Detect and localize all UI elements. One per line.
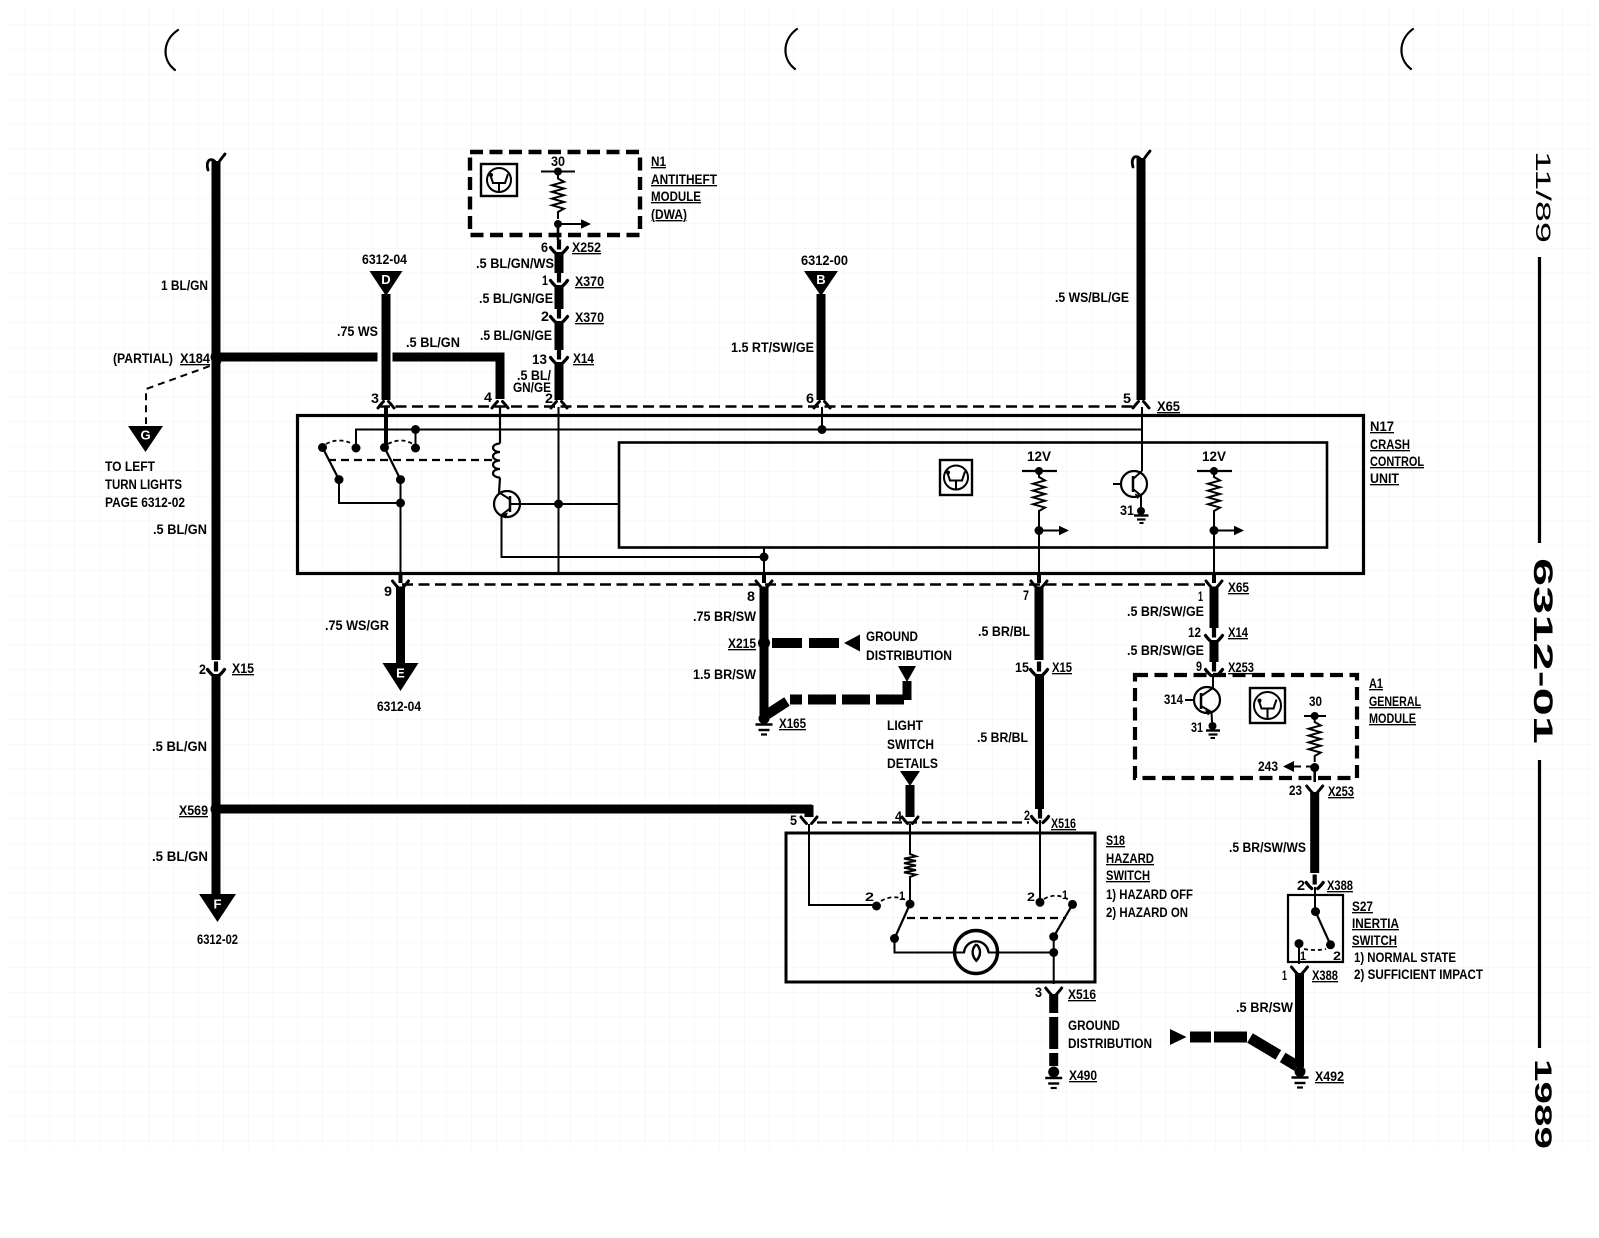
svg-text:HAZARD: HAZARD [1106,851,1154,866]
wire .5 WS/BL/GE feed [1132,151,1150,167]
node pin8 stub [760,553,769,562]
pin 7 of N17 [1037,575,1041,583]
transistor Q1 [499,478,500,494]
svg-text:X516: X516 [1068,987,1096,1002]
wire .5 BR/SW/GE lower [1210,640,1219,662]
lamp in S18 [955,931,998,974]
wire .5 BL/GN/WS [555,252,564,273]
pin 1 of N17 [1212,575,1216,583]
A1 module box [1135,675,1357,778]
svg-text:243: 243 [1258,759,1278,774]
arrow output N1 [560,223,584,225]
wire lamp to switch2 [988,952,1054,954]
S18 switch 1 [872,902,881,911]
svg-text:2: 2 [199,662,206,677]
svg-text:S27: S27 [1352,899,1373,914]
light switch details arrow [900,771,920,786]
module icon N1 [481,164,517,196]
connector X253 pin 9 [1206,670,1223,676]
svg-text:DISTRIBUTION: DISTRIBUTION [1068,1036,1152,1051]
svg-text:2) SUFFICIENT IMPACT: 2) SUFFICIENT IMPACT [1354,967,1484,982]
svg-text:.5 BL/GN/GE: .5 BL/GN/GE [479,291,553,306]
arrow resistor2 [1216,530,1237,532]
svg-text:2) HAZARD ON: 2) HAZARD ON [1106,905,1188,920]
wire switch2 to pin 3 [1053,953,1055,985]
svg-text:DISTRIBUTION: DISTRIBUTION [866,648,952,663]
module icon N17 [940,460,972,495]
resistor in S18 [904,848,916,883]
ground distribution wire to X492 [1170,1029,1187,1045]
connector X15 pin 2 [208,670,225,676]
svg-text:MODULE: MODULE [1369,711,1416,726]
wire .5 BR/BL upper [1035,587,1044,661]
svg-text:G: G [140,428,150,443]
svg-text:9: 9 [1196,659,1202,674]
svg-text:6312-00: 6312-00 [801,253,848,268]
svg-text:2: 2 [865,890,874,904]
svg-text:N1: N1 [651,154,666,169]
wire pin5 into S18 [809,824,875,905]
connector X14 pin 13 [551,358,568,364]
connector X516 pin 3 [1046,988,1062,995]
ground internal Q3 [1209,722,1217,730]
svg-text:.75 BR/SW: .75 BR/SW [693,609,756,624]
svg-text:1.5 BR/SW: 1.5 BR/SW [693,667,756,682]
svg-text:.5 BR/BL: .5 BR/BL [977,730,1028,745]
resistor in A1 [1309,716,1321,762]
svg-text:314: 314 [1164,692,1183,707]
svg-text:X370: X370 [575,274,604,289]
svg-text:1989: 1989 [1529,1059,1556,1149]
svg-text:.75 WS/GR: .75 WS/GR [325,618,389,633]
svg-text:UNIT: UNIT [1370,471,1400,486]
svg-text:DETAILS: DETAILS [887,756,938,771]
svg-text:X253: X253 [1228,660,1254,675]
svg-text:2: 2 [1024,808,1030,823]
module icon A1 [1250,688,1285,723]
svg-text:1: 1 [542,273,548,288]
wire .5 BR/BL lower [1035,674,1044,809]
wire N1 to X252 [557,224,560,240]
svg-text:.5 BL/GN: .5 BL/GN [152,849,208,864]
ground distribution wire X490 [1049,994,1058,1013]
svg-text:X14: X14 [1228,625,1248,640]
svg-text:1: 1 [1300,949,1306,963]
svg-text:(DWA): (DWA) [651,207,687,222]
ground distribution arrow lower [898,666,916,682]
node 243 [1310,763,1319,772]
N17 inner box [619,443,1327,548]
wire Q1 emitter to pin8 node [502,515,765,557]
relay switch 1 [318,443,327,452]
svg-text:X65: X65 [1157,399,1180,414]
resistor 12V-1 [1033,471,1045,517]
wire Q1 base to node [520,503,559,505]
svg-text:TURN LIGHTS: TURN LIGHTS [105,477,182,492]
wire 1.5 BR/SW [760,643,769,715]
connector X14 pin 12 [1206,636,1223,642]
svg-text:4: 4 [484,390,493,405]
svg-text:2: 2 [1027,890,1035,904]
margin rule lower [1538,760,1541,1048]
svg-text:SWITCH: SWITCH [887,737,934,752]
svg-text:X569: X569 [179,803,208,818]
pin 6 of N17 [814,402,830,409]
connector X253 pin 23 [1307,786,1323,793]
junction stub to switch 2 contact [411,425,420,434]
connector X516 pin 2 [1032,817,1049,823]
wire pin4 to coil [499,407,501,444]
connector X388 pin 1 [1292,967,1308,974]
antitheft module N1 box [470,152,640,235]
svg-text:.5 BR/SW: .5 BR/SW [1236,1000,1293,1015]
svg-text:X65: X65 [1228,580,1249,595]
wire .75 WS/GR [396,587,405,666]
wire pin6 into box [821,407,823,430]
N17 top connector dashed row [379,405,1133,407]
svg-text:.5 BR/SW/GE: .5 BR/SW/GE [1127,643,1204,658]
svg-text:X215: X215 [728,636,756,651]
ground internal Q2 [1137,507,1145,515]
svg-text:30: 30 [551,154,565,169]
terminal 30 bar A1 [1304,715,1326,717]
wire pin3 to relay switch 2 pivot [384,407,388,445]
ground X490 [1048,1067,1059,1078]
wire pin2 vertical [558,407,560,574]
svg-text:6312-04: 6312-04 [362,252,407,267]
svg-text:.5 BR/SW/WS: .5 BR/SW/WS [1229,840,1306,855]
svg-text:B: B [816,272,825,287]
svg-text:ANTITHEFT: ANTITHEFT [651,172,718,187]
svg-text:D: D [381,272,390,287]
svg-text:.5 BL/GN: .5 BL/GN [406,335,460,350]
svg-text:TO LEFT: TO LEFT [105,459,156,474]
wire switch2 junction [1053,937,1055,953]
wire resistor1 to pin 7 [1038,531,1040,575]
svg-text:13: 13 [532,352,547,367]
wire junction to pin 9 [400,503,402,574]
N17 bottom connector dashed row [402,583,1205,585]
svg-text:(PARTIAL): (PARTIAL) [113,351,173,366]
svg-text:1: 1 [899,889,905,903]
transistor Q2 [1121,471,1147,497]
N17 outer box [298,416,1364,574]
svg-text:X15: X15 [1052,660,1072,675]
svg-text:.5 WS/BL/GE: .5 WS/BL/GE [1055,290,1129,305]
wire .5 BL/GN/GE lower [555,362,564,400]
connector X388 pin 2 [1306,883,1323,889]
svg-text:9: 9 [384,584,392,599]
wire switch2 to junction [400,480,402,503]
svg-text:12V: 12V [1202,449,1226,464]
wire .5 BR/SW [1295,973,1304,1067]
svg-text:6: 6 [541,240,548,255]
node X184 [211,351,223,363]
svg-text:2: 2 [541,309,549,324]
relay coil linkage dashed [328,459,494,461]
svg-text:SWITCH: SWITCH [1352,933,1397,948]
svg-text:X184: X184 [180,351,210,366]
wire .5 BL/GN lower [212,809,221,895]
S18 top dashed row [817,821,1029,823]
wire resistor2 to pin 1 [1213,531,1215,575]
svg-text:N17: N17 [1370,419,1394,434]
connector X370 pin 2 [551,317,568,323]
svg-text:.5 BL/GN/GE: .5 BL/GN/GE [480,328,552,343]
pin 9 of N17 [399,575,403,583]
connector pin 4 S18 [902,817,918,824]
S18 box [786,833,1095,982]
wire .75 BR/SW [760,587,769,644]
wire switch1 to junction [339,480,401,503]
wire pin4 resistor feed [909,824,911,848]
svg-text:GROUND: GROUND [866,629,918,644]
wire switch1 to lamp [895,939,966,953]
svg-text:X14: X14 [573,351,594,366]
svg-text:GROUND: GROUND [1068,1018,1120,1033]
svg-text:X252: X252 [572,240,601,255]
svg-text:X516: X516 [1051,816,1076,831]
pin 4 of N17 [492,402,508,409]
wire X253 to Q3 [1212,674,1214,688]
svg-text:X490: X490 [1069,1068,1097,1083]
svg-text:5: 5 [1123,391,1132,406]
svg-text:2: 2 [1297,878,1305,893]
pin 2 of N17 top [551,402,567,409]
svg-text:X253: X253 [1328,784,1354,799]
transistor Q3 [1194,687,1220,713]
wire S27 pin1 out [1298,944,1300,964]
terminal 30 bar N1 [541,171,575,173]
svg-text:CRASH: CRASH [1370,437,1410,452]
svg-text:1: 1 [1282,968,1287,983]
node X569 [211,803,223,815]
wire .5 BL/GN mid [212,674,221,806]
arrow 243 [1292,766,1313,768]
svg-text:1.5 RT/SW/GE: 1.5 RT/SW/GE [731,340,814,355]
resistor in N1 [552,172,564,220]
svg-text:F: F [214,897,222,912]
svg-text:8: 8 [747,589,756,604]
svg-text:MODULE: MODULE [651,189,701,204]
pin 5 of N17 X65 [1133,402,1149,409]
svg-text:5: 5 [790,813,797,828]
connector X370 pin 1 [551,281,568,287]
svg-text:15: 15 [1015,660,1029,675]
resistor 12V-2 [1208,471,1220,517]
svg-text:31: 31 [1191,720,1203,735]
svg-text:X370: X370 [575,310,604,325]
svg-text:X15: X15 [232,661,254,676]
svg-text:.5 BL/GN: .5 BL/GN [153,522,207,537]
pin 8 of N17 [762,575,766,583]
connector X252 pin 6 [551,248,568,254]
wire .5 BL/GN from X184 to pin4 [216,353,378,362]
svg-text:SWITCH: SWITCH [1106,868,1150,883]
wire 1.5 RT/SW/GE [817,294,826,400]
svg-text:A1: A1 [1369,676,1383,691]
wire pin2 into S18 [1039,820,1041,901]
ground distribution wire at X215 [772,638,842,648]
svg-text:1 BL/GN: 1 BL/GN [161,278,208,293]
svg-text:4: 4 [895,809,902,824]
svg-text:X388: X388 [1312,968,1338,983]
svg-text:6312-01: 6312-01 [1528,558,1558,744]
margin rule upper [1538,257,1541,543]
svg-text:1) HAZARD OFF: 1) HAZARD OFF [1106,887,1193,902]
svg-text:CONTROL: CONTROL [1370,454,1424,469]
ground X165 [759,713,770,724]
page arrow E [383,663,419,691]
svg-text:.5 BR/SW/GE: .5 BR/SW/GE [1127,604,1204,619]
wire X569 to S18 pin 5 [805,805,814,817]
node resistor1 out [1038,517,1040,530]
svg-text:INERTIA: INERTIA [1352,916,1399,931]
svg-text:X165: X165 [779,716,806,731]
svg-text:2: 2 [1333,949,1341,963]
svg-text:.75 WS: .75 WS [337,324,378,339]
svg-text:6: 6 [806,391,815,406]
connector X15 pin 15 [1031,670,1048,676]
dashed reference to G [146,362,221,424]
S27 switch [1314,887,1316,911]
wire resistor to contact [909,883,911,904]
wire .5 BL/GN/GE upper [555,285,564,309]
page arrow F [199,894,236,922]
wire Q1 base node to inner box [559,503,620,505]
node X215 [758,637,770,649]
svg-text:6312-02: 6312-02 [197,932,238,947]
svg-text:7: 7 [1023,588,1029,603]
svg-text:12V: 12V [1027,449,1051,464]
svg-text:X492: X492 [1315,1069,1344,1084]
svg-text:1: 1 [1198,589,1203,604]
internal bus top [356,430,1142,448]
svg-text:.5 BL/GN/WS: .5 BL/GN/WS [476,256,554,271]
svg-text:1: 1 [1062,888,1068,902]
svg-text:GENERAL: GENERAL [1369,694,1421,709]
svg-text:12: 12 [1188,625,1201,640]
svg-text:1) NORMAL STATE: 1) NORMAL STATE [1354,950,1456,965]
wire .5 BL/GN/GE mid [555,321,564,350]
wire .5 BR/SW/GE upper [1210,587,1219,629]
svg-text:11/89: 11/89 [1531,151,1554,243]
svg-text:3: 3 [371,391,380,406]
page arrow G [128,426,163,452]
svg-text:X388: X388 [1327,878,1353,893]
wire .5 BR/SW/WS [1310,792,1319,873]
wire .5 BL/GN to hazard switch [216,805,812,814]
svg-text:.5 BR/BL: .5 BR/BL [978,624,1030,639]
arrow resistor1 [1041,530,1062,532]
relay coil [493,444,500,478]
svg-text:6312-04: 6312-04 [377,699,421,714]
svg-text:.5 BL/GN: .5 BL/GN [152,739,207,754]
switch linkage dashed S18 [907,917,1066,919]
svg-text:E: E [396,666,405,681]
svg-text:31: 31 [1120,503,1134,518]
S27 box [1288,895,1343,962]
node below resistor N1 [554,220,562,228]
pin 3 of N17 [378,402,394,409]
node resistor2 out [1213,517,1215,530]
svg-text:30: 30 [1309,694,1322,709]
wire pin5 to Q2 collector [1141,407,1143,471]
svg-text:GN/GE: GN/GE [513,380,551,395]
wire .75 WS from D to pin3 [382,294,391,400]
svg-text:3: 3 [1035,985,1042,1000]
wire 1 BL/GN left feed [207,154,225,170]
svg-text:23: 23 [1289,783,1302,798]
relay switch 2 [380,443,389,452]
wire A1 to X253 pin 23 [1313,768,1316,783]
svg-text:PAGE 6312-02: PAGE 6312-02 [105,495,185,510]
svg-text:LIGHT: LIGHT [887,718,924,733]
S18 switch 2 [1036,898,1045,907]
ground X492 [1295,1066,1306,1077]
svg-text:S18: S18 [1106,833,1125,848]
